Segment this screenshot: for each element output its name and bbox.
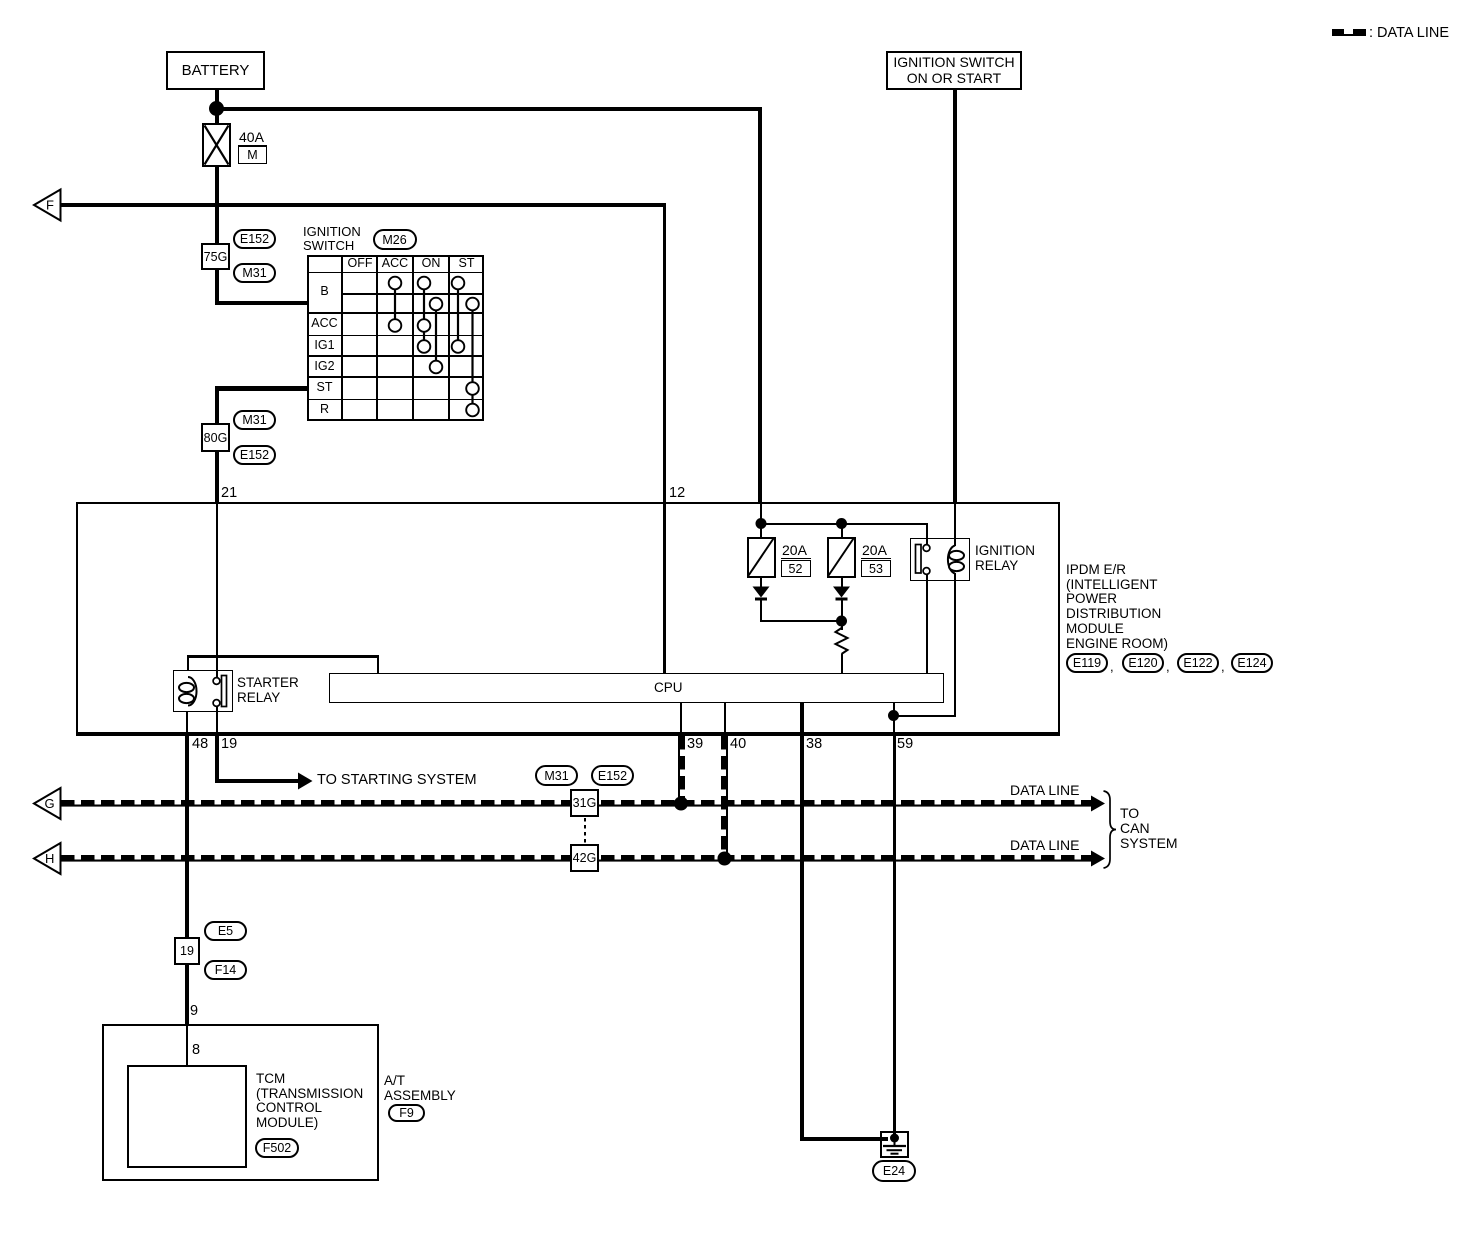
wire coil return horizontal to node E <box>893 715 957 717</box>
table grid horizontal line under ACC <box>307 335 484 337</box>
wire pin 19 down to starting system corner <box>215 736 219 783</box>
ignition relay coil <box>948 546 964 574</box>
label pin 19 <box>221 737 237 752</box>
fuse 53 box <box>827 537 856 578</box>
wire CPU pin to node E to IPDM pin 59 <box>893 702 895 734</box>
label IGNITION RELAY <box>975 544 1035 574</box>
comma 3 <box>1221 660 1225 674</box>
resistor R1 zigzag <box>836 628 848 654</box>
wire pin 38 horizontal to ground node <box>800 1137 888 1141</box>
wire node B to fuse 52 <box>760 524 762 537</box>
table grid horizontal line under IG1 <box>307 355 484 358</box>
table row label IG1 <box>308 336 341 355</box>
wire node D to resistor R1 <box>841 621 843 630</box>
junction node E coil return <box>888 710 899 721</box>
connector oval F14 <box>204 960 247 980</box>
label IGNITION SWITCH for table <box>303 225 361 253</box>
diode D2 under fuse 53 <box>833 587 850 601</box>
starter relay box <box>173 670 233 712</box>
connector oval E24 <box>872 1160 916 1182</box>
label pin 12 <box>669 486 685 501</box>
wire diode D1 down to corner <box>760 600 762 622</box>
junction node on data line G pin39 <box>674 797 688 811</box>
curly brace to CAN system <box>1104 791 1117 868</box>
fuse 52 box <box>747 537 776 578</box>
label pin 21 <box>221 486 237 501</box>
label 40A <box>239 130 264 145</box>
label DATA LINE upper <box>1010 783 1080 798</box>
fuse number 53 box <box>861 560 891 577</box>
IPDM E/R outer box <box>76 502 1060 734</box>
wire pin 12 vertical to CPU <box>663 203 666 674</box>
page arrow H <box>34 843 61 874</box>
ground symbol E24 <box>883 1134 906 1154</box>
wire resistor R1 to CPU <box>841 654 843 673</box>
legend label DATA LINE <box>1369 26 1449 41</box>
dotted link between 31G and 42G <box>584 818 586 843</box>
ignition switch on or start box <box>886 51 1022 90</box>
wire node C to fuse 53 <box>841 524 843 537</box>
starter relay contact bottom pin circle <box>213 700 220 707</box>
connector oval M31 upper <box>233 263 276 283</box>
page arrow G <box>34 788 61 819</box>
wire ignition relay coil return down <box>954 581 956 716</box>
page arrow F <box>34 190 61 221</box>
wire pin 48 down to connector 19 <box>185 736 189 937</box>
connector oval E152 upper <box>233 229 276 249</box>
label pin 59 <box>897 737 913 752</box>
wire internal bus node B to ignition relay contact <box>760 523 928 525</box>
connector oval E122 <box>1177 653 1219 673</box>
connector oval M31 data <box>535 765 578 786</box>
connector 31G box <box>570 789 599 817</box>
connector oval M26 <box>373 229 417 250</box>
junction node B battery bus <box>756 518 767 529</box>
connector oval E152 lower <box>233 445 276 465</box>
fusible link X symbol <box>205 126 229 165</box>
wire CPU pin 38 stub <box>800 702 804 734</box>
comma 1 <box>1110 660 1114 674</box>
wire pin 59 to ground <box>893 736 896 1136</box>
wire starter relay contact to IPDM pin 19 <box>216 706 218 734</box>
wire horizontal to starting system arrow <box>215 779 299 783</box>
wire CPU pin 39 stub <box>680 702 682 734</box>
connector oval E124 <box>1231 653 1273 673</box>
CPU box <box>329 673 944 703</box>
table grid vertical line 3 <box>412 255 415 421</box>
IPDM bottom edge reinforcement <box>76 733 1060 736</box>
table grid horizontal B sub line <box>342 293 484 296</box>
arrow data line G to CAN <box>1091 796 1105 812</box>
label pin 48 <box>192 737 208 752</box>
diode D1 under fuse 52 <box>753 587 770 601</box>
fuse block M box <box>238 146 267 164</box>
label pin 39 <box>687 737 703 752</box>
underline 20A fuse53 <box>861 558 891 560</box>
wire connector 75G to ignition switch terminal B <box>215 270 219 305</box>
wire diode D2 to node D <box>841 600 843 621</box>
connector oval E152 data <box>591 765 634 786</box>
wire F-line horizontal to pin 12 <box>60 203 666 208</box>
junction node D diodes join <box>836 616 847 627</box>
wire battery bus horizontal to IPDM pin feed <box>214 107 762 112</box>
label STARTER RELAY <box>237 676 299 706</box>
A/T assembly box <box>102 1024 379 1181</box>
label pin 8 <box>192 1043 200 1058</box>
table grid horizontal line under IG2 <box>307 376 484 379</box>
wire pin40 dashed data line to node on line H <box>721 736 728 856</box>
table row label B <box>308 272 341 312</box>
wire node A to fusible link 40A <box>215 108 219 124</box>
connector oval E120 <box>1122 653 1164 673</box>
wire fuse 52 to diode D1 <box>760 577 762 587</box>
wire battery feed stub inside IPDM to node B <box>760 502 762 524</box>
wire horizontal into ignition switch B row <box>215 301 309 306</box>
starter relay contact bar <box>222 676 227 707</box>
wire inside A/T assembly to TCM pin 8 <box>186 1024 188 1066</box>
wire horizontal step to CPU <box>187 655 379 658</box>
comma 2 <box>1166 660 1170 674</box>
wire ignition relay contact feed down into relay box <box>926 523 928 546</box>
wire ignition switch ON/START feed to IPDM pin 59 area <box>953 90 958 502</box>
starter relay coil <box>179 677 197 706</box>
wire step down into CPU top <box>377 655 380 674</box>
label pin 9 <box>190 1004 198 1019</box>
connector oval E119 <box>1066 653 1108 673</box>
underline 20A fuse52 <box>781 558 811 560</box>
junction node A at battery <box>209 101 224 116</box>
data line H (CAN-L dashed wire) <box>61 855 1091 862</box>
svg-text:G: G <box>45 796 55 811</box>
label TO STARTING SYSTEM <box>317 773 477 788</box>
fuse number 52 box <box>781 560 811 577</box>
ignition relay box <box>910 538 970 581</box>
connector oval F9 <box>388 1104 425 1122</box>
label A/T ASSEMBLY <box>384 1074 456 1103</box>
starter relay contact top pin circle <box>213 678 220 685</box>
label IPDM E/R block <box>1066 563 1168 651</box>
ignition switch table contact circles row B1 <box>389 277 479 417</box>
label TCM block <box>256 1072 363 1131</box>
table row label ACC <box>308 314 341 334</box>
wire starter relay coil top to CPU step <box>187 655 190 671</box>
connector 42G box <box>570 844 599 872</box>
wire pin39 dashed data line to node on line G <box>678 736 685 801</box>
label 20A fuse53 <box>862 543 887 558</box>
junction node C fuse53 feed <box>836 518 847 529</box>
connector oval M31 lower <box>233 410 276 430</box>
label TO CAN SYSTEM <box>1120 806 1178 851</box>
fuse 53 diagonal <box>829 539 854 576</box>
arrow data line H to CAN <box>1091 851 1105 867</box>
connector oval E5 <box>204 921 247 941</box>
wire CPU pin 40 stub <box>724 702 726 734</box>
wire fuse 53 to diode D2 <box>841 577 843 587</box>
table grid horizontal header line <box>307 272 484 274</box>
ignition switch table outer box <box>307 255 484 421</box>
legend sample white notch <box>1344 29 1353 34</box>
connector oval F502 <box>255 1138 299 1158</box>
label DATA LINE lower <box>1010 838 1080 853</box>
legend data line sample bar <box>1332 29 1366 36</box>
underline for 40A <box>238 145 267 147</box>
table header ACC <box>378 256 412 271</box>
data line G (CAN-H dashed wire) <box>61 800 1091 807</box>
wire pin 38 down <box>800 736 804 1141</box>
ignition relay contact top pin circle <box>923 545 930 552</box>
label pin 38 <box>806 737 822 752</box>
junction patch where pin40 dashed line crosses data line G <box>721 800 728 807</box>
table grid horizontal line under B <box>307 312 484 315</box>
wire ignition relay coil stub top <box>954 538 956 546</box>
table header OFF <box>343 256 377 271</box>
wire horizontal from ignition switch ST row <box>215 386 309 391</box>
TCM box <box>127 1065 247 1168</box>
fusible link 40A box <box>202 123 231 167</box>
arrow to starting system <box>298 773 313 790</box>
ignition relay contact bar <box>916 545 922 574</box>
wire ignition relay coil stub bottom <box>954 573 956 582</box>
connector 75G box <box>201 243 230 270</box>
table grid horizontal line under ST <box>307 399 484 401</box>
svg-text:H: H <box>45 851 54 866</box>
label 20A fuse52 <box>782 543 807 558</box>
table grid vertical line 1 <box>341 255 344 421</box>
svg-text:F: F <box>46 198 54 213</box>
wire ignition feed inside IPDM to ignition relay coil <box>954 502 956 539</box>
wire battery feed vertical into IPDM E/R <box>758 107 763 503</box>
wire ST row to connector 80G <box>215 386 219 424</box>
wire fusible link to connector 75G <box>215 166 219 244</box>
ignition relay contact bottom pin circle <box>923 568 930 575</box>
wire diode D1 corner to node D <box>760 620 842 622</box>
wire connector 19 down to A/T assembly <box>185 964 189 1025</box>
table header ST <box>450 256 483 271</box>
table grid vertical line 2 <box>376 255 378 421</box>
wire starter relay coil to IPDM pin 48 <box>186 712 188 734</box>
table header ON <box>414 256 448 271</box>
connector 80G box <box>201 423 230 452</box>
connector 19 box <box>174 937 200 965</box>
fuse 52 diagonal <box>749 539 774 576</box>
label pin 40 <box>730 737 746 752</box>
table row label ST <box>308 378 341 398</box>
table row label R <box>308 400 341 420</box>
table row label IG2 <box>308 357 341 376</box>
table grid vertical line 4 <box>448 255 450 421</box>
label CPU <box>654 681 683 695</box>
wire connector 80G to IPDM pin 21 <box>215 451 219 503</box>
battery box <box>166 51 265 90</box>
junction node on data line H pin40 <box>718 852 732 866</box>
ground box E24 <box>880 1131 909 1158</box>
wire battery to junction node A <box>215 90 219 110</box>
wire ignition relay contact output to CPU <box>926 574 928 673</box>
wire pin 21 to starter relay contact <box>216 502 218 678</box>
